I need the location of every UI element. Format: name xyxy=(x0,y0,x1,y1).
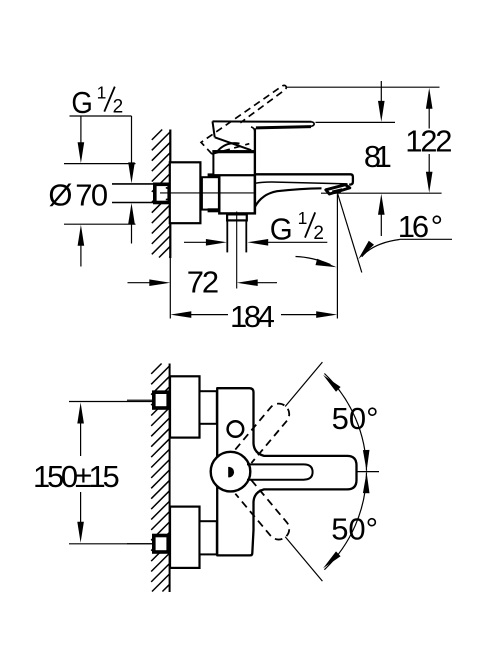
diameter 70 extension lines xyxy=(64,164,136,225)
svg-text:2: 2 xyxy=(113,96,124,117)
dimension 81 arrows xyxy=(380,81,382,103)
vertical centerline xyxy=(236,212,238,289)
nut lower lip xyxy=(208,208,219,212)
lower supply centerline xyxy=(127,543,152,545)
16 degree left leader arc xyxy=(296,257,331,265)
lever open down 50 deg (dashed) xyxy=(235,480,293,544)
svg-text:72: 72 xyxy=(187,265,218,300)
shower outlet stub below body xyxy=(227,214,247,220)
svg-text:2: 2 xyxy=(313,223,324,244)
lower adapter xyxy=(200,521,217,554)
handle column / body right edge xyxy=(254,128,256,213)
16 degree right leader arc xyxy=(362,240,400,257)
wall (side view) hatching xyxy=(152,130,170,258)
16 degree stream vertical extension xyxy=(336,194,338,318)
dimension 150 plus/minus 15 extension lines xyxy=(69,402,152,544)
handle hub circle xyxy=(211,452,251,492)
connector nut between escutcheon and body xyxy=(202,177,219,209)
upper union square (front view) xyxy=(154,392,168,408)
spout top line xyxy=(255,174,353,185)
G 1/2 bracket line xyxy=(70,115,132,117)
svg-text:°: ° xyxy=(431,209,443,244)
svg-text:50°: 50° xyxy=(331,512,378,547)
spout inner line xyxy=(255,182,348,184)
dimension 150 plus/minus 15 arrows xyxy=(77,403,84,424)
wall line (front view) xyxy=(169,364,171,593)
svg-text:1: 1 xyxy=(97,82,107,102)
16 degree underline xyxy=(400,238,453,240)
arrow to pipe bottom xyxy=(131,221,133,244)
lever grip inner outline xyxy=(247,464,313,479)
svg-text:1: 1 xyxy=(298,208,308,228)
mixer body block (side view) xyxy=(219,175,255,213)
upper supply centerline xyxy=(127,399,152,401)
dimension G 1/2 (outlet) text xyxy=(270,208,324,247)
lower escutcheon (front view) xyxy=(170,507,200,568)
wall union square fitting (side view) xyxy=(155,184,169,202)
upper 50 deg extension line xyxy=(285,362,322,406)
svg-text:16: 16 xyxy=(398,209,428,244)
leader/arrow to pipe top xyxy=(131,116,133,165)
dimension 122 arrows xyxy=(426,88,433,109)
wall extension line down to dimension lines xyxy=(169,258,171,319)
svg-text:50°: 50° xyxy=(332,401,379,436)
inner fillet lever-to-column xyxy=(251,127,255,132)
handle hub D mark xyxy=(228,467,234,478)
lever open up 50 deg (dashed) xyxy=(235,399,293,463)
upper adapter xyxy=(200,391,217,424)
supply pipe lines behind wall xyxy=(112,184,154,203)
horizontal centerline xyxy=(160,192,254,194)
dimension 72 arrows xyxy=(128,282,152,284)
extension line closed handle top xyxy=(316,121,396,123)
cartridge housing xyxy=(212,151,255,175)
svg-text:122: 122 xyxy=(405,124,451,159)
aerator at spout tip xyxy=(326,185,350,194)
outlet pipe xyxy=(227,221,246,253)
svg-text:184: 184 xyxy=(230,299,275,334)
nut upper lip xyxy=(208,173,219,177)
extension line open handle top xyxy=(286,86,440,88)
dimension 184 line and arrows xyxy=(170,311,191,318)
16 degree stream slanted line xyxy=(338,194,362,273)
pipe end dome inside union xyxy=(166,188,172,200)
lever handle (closed position) xyxy=(213,121,315,150)
cartridge dome under handle nose xyxy=(218,143,240,151)
mixer body silhouette (front view) with lever bar xyxy=(217,388,356,555)
svg-text:G: G xyxy=(71,86,92,121)
diameter 70 bottom arrow xyxy=(80,243,82,267)
G 1/2 outlet arrows xyxy=(184,241,208,243)
svg-text:Ø: Ø xyxy=(48,177,72,212)
lever centerline extension right xyxy=(357,471,380,473)
lower union square (front view) xyxy=(154,536,168,553)
lower 50 deg dimension arc xyxy=(324,472,366,569)
dimension diameter 70 text xyxy=(48,177,108,212)
lever handle open position (dashed) xyxy=(201,84,301,166)
screw hole circle xyxy=(228,421,244,437)
upper 50 deg dimension arc xyxy=(324,374,366,471)
leader to escutcheon top xyxy=(80,116,82,145)
outlet level reference line xyxy=(321,192,442,194)
escutcheon flange (side view) xyxy=(170,162,201,223)
upper escutcheon (front view) xyxy=(170,376,200,437)
spout underside curve xyxy=(255,188,322,207)
wall (front view) hatching xyxy=(151,364,169,592)
svg-text:70: 70 xyxy=(75,177,108,212)
svg-text:150±15: 150±15 xyxy=(33,459,118,494)
wall line (side view) xyxy=(169,130,171,259)
lower 50 deg extension line xyxy=(285,537,322,581)
dimension G 1/2 (top label) text xyxy=(71,82,123,120)
